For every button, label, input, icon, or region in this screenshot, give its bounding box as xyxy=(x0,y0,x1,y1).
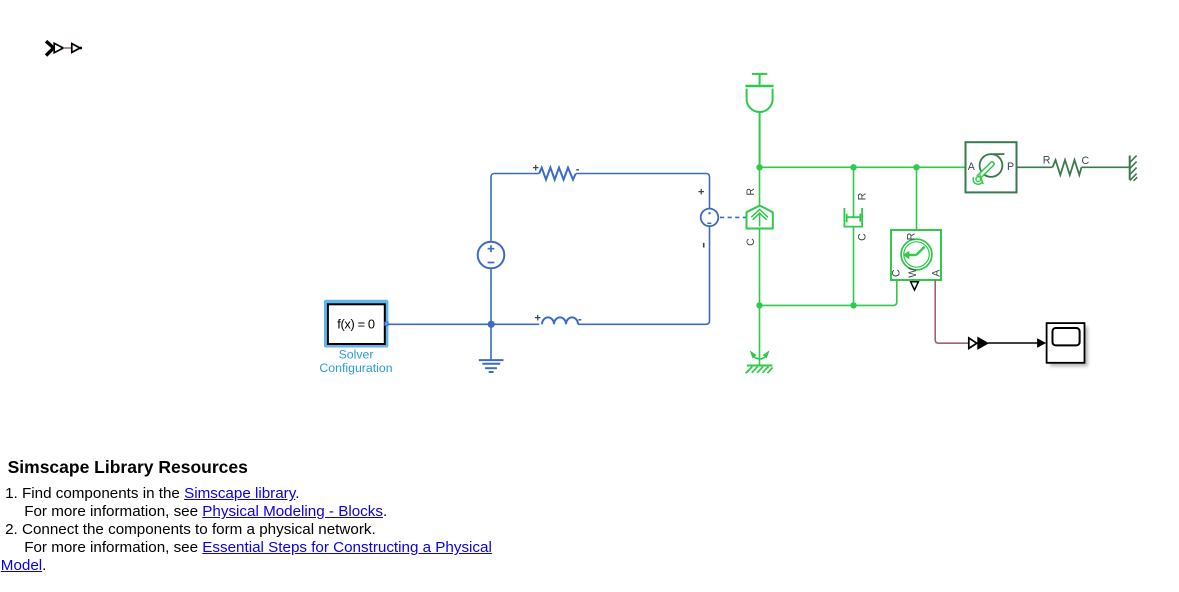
label damper C port xyxy=(856,233,868,241)
annotation list line 2 xyxy=(24,503,387,521)
label current sensor minus port xyxy=(703,243,705,248)
annotation list line 1 xyxy=(5,485,299,503)
wire torque source upper lead xyxy=(759,167,761,205)
damper B1 xyxy=(844,208,862,227)
ground electrical reference xyxy=(479,360,504,372)
label solver configuration name xyxy=(319,348,392,375)
svg-text:C: C xyxy=(745,238,757,246)
wire rotational reference lead xyxy=(759,305,761,365)
solver configuration block highlight xyxy=(324,300,389,348)
svg-text:R: R xyxy=(856,192,868,200)
ground rotational reference xyxy=(746,351,773,373)
resistor R1 xyxy=(539,168,576,180)
node junction blue xyxy=(488,321,495,328)
annotation heading xyxy=(8,458,248,476)
converter U1 Simulink-PS unconnected input chevron xyxy=(46,41,54,55)
converter U1 Simulink-PS output triangle xyxy=(72,44,82,53)
label spring C port xyxy=(1081,155,1089,167)
label inductor minus xyxy=(578,313,582,325)
svg-text:Solver: Solver xyxy=(339,348,374,362)
ground translational reference wall xyxy=(1130,156,1138,181)
svg-text:R: R xyxy=(745,188,757,196)
converter U2 PS-Simulink output triangle xyxy=(978,337,988,349)
node rotational top junction 3 xyxy=(913,164,919,170)
label motion sensor C port xyxy=(890,269,902,277)
label torque source C port xyxy=(745,238,757,246)
svg-text:A: A xyxy=(931,269,943,277)
node rotational bottom junction 1 xyxy=(756,302,762,308)
label motion sensor A port xyxy=(931,269,943,277)
wire motion sensor upper lead xyxy=(916,167,918,230)
port motion sensor W unconnected triangle xyxy=(911,282,919,290)
svg-text:R: R xyxy=(1043,155,1051,167)
label spring R port xyxy=(1043,155,1051,167)
inductor L1 xyxy=(542,317,578,324)
svg-text:W: W xyxy=(907,268,919,278)
converter U2 PS-Simulink input triangle xyxy=(969,338,977,348)
scope block shadow xyxy=(1050,327,1088,367)
wire translational to spring xyxy=(1017,166,1053,168)
inertia J1 xyxy=(745,74,773,167)
wire damper lower lead xyxy=(853,227,855,306)
wire U1 internal PS segment xyxy=(63,47,72,49)
svg-text:R: R xyxy=(906,232,918,240)
label inductor plus xyxy=(535,313,541,325)
voltage source V1 xyxy=(478,242,505,269)
solver configuration block xyxy=(328,304,385,344)
annotation list line 4 xyxy=(24,539,492,557)
wire PS dashed connection sensor to torque source xyxy=(720,216,746,218)
svg-text:C: C xyxy=(856,233,868,241)
svg-text:C: C xyxy=(1081,155,1089,167)
svg-text:A: A xyxy=(968,161,976,173)
label motion sensor W port xyxy=(907,268,919,278)
label motion sensor R port xyxy=(906,232,918,240)
wire damper upper lead xyxy=(853,167,855,217)
torque source T1 xyxy=(747,206,773,229)
converter block U3 crank A-P xyxy=(966,142,1017,192)
label current sensor plus port xyxy=(698,186,704,198)
wire PS maroon sensor A to converter xyxy=(935,280,968,343)
port solver configuration xyxy=(385,322,388,325)
annotation list line 5 xyxy=(1,557,47,575)
label damper R port xyxy=(856,192,868,200)
svg-text:f(x) = 0: f(x) = 0 xyxy=(337,316,375,331)
svg-text:Configuration: Configuration xyxy=(319,361,392,375)
svg-text:+: + xyxy=(535,313,541,325)
label converter P port xyxy=(1007,161,1014,173)
spring K1 xyxy=(1053,160,1082,175)
scope block xyxy=(1047,323,1085,363)
wire electrical loop xyxy=(388,174,710,360)
wire rotational main horizontal xyxy=(760,166,966,168)
svg-text:-: - xyxy=(576,163,580,175)
node rotational top junction 2 xyxy=(850,164,856,170)
svg-text:P: P xyxy=(1007,161,1014,173)
label converter A port xyxy=(968,161,976,173)
label torque source R port xyxy=(745,188,757,196)
current sensor A1 xyxy=(701,209,719,227)
node rotational top junction 1 xyxy=(756,164,762,170)
svg-text:+: + xyxy=(533,163,539,175)
wire signal to scope xyxy=(988,338,1046,348)
svg-text:C: C xyxy=(890,269,902,277)
annotation list line 3 xyxy=(5,521,376,539)
label resistor minus xyxy=(576,163,580,175)
motion sensor S1 xyxy=(891,230,941,280)
wire spring to wall xyxy=(1082,166,1130,168)
converter U1 Simulink-PS input triangle xyxy=(54,43,63,52)
svg-text:-: - xyxy=(578,313,582,325)
wire rotational bottom horizontal xyxy=(760,280,897,305)
node rotational bottom junction 2 xyxy=(850,302,856,308)
wire torque source lower lead xyxy=(759,228,761,305)
label resistor plus xyxy=(533,163,539,175)
svg-text:+: + xyxy=(698,186,704,198)
